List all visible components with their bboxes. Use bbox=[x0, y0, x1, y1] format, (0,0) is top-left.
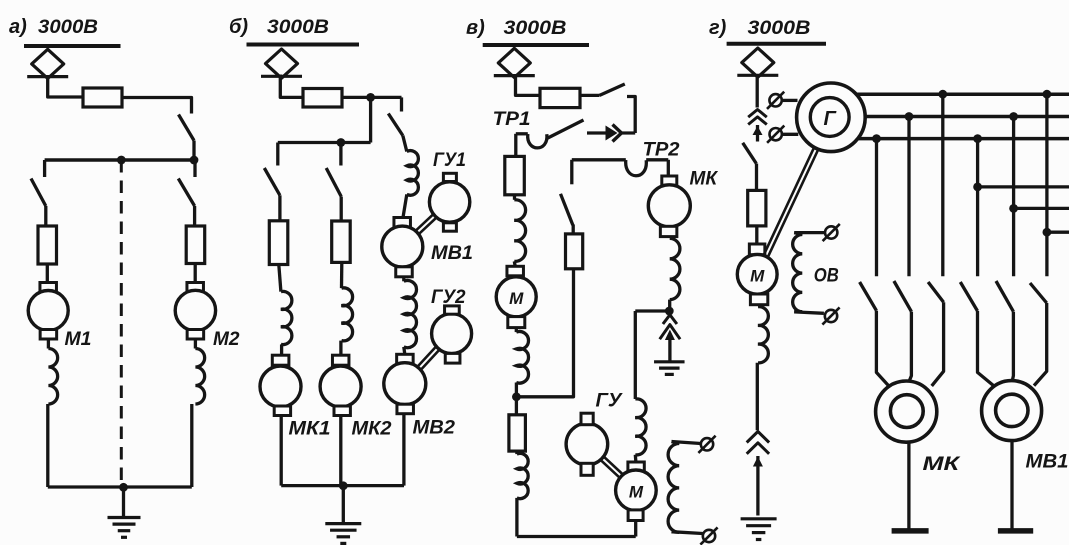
svg-text:3000В: 3000В bbox=[748, 17, 811, 39]
svg-text:3000В: 3000В bbox=[504, 17, 567, 39]
svg-text:ОВ: ОВ bbox=[814, 265, 839, 287]
svg-text:М: М bbox=[629, 483, 644, 502]
svg-text:М1: М1 bbox=[65, 328, 92, 350]
svg-text:ГУ2: ГУ2 bbox=[431, 286, 466, 308]
svg-text:М: М bbox=[509, 289, 524, 308]
svg-text:ГУ1: ГУ1 bbox=[433, 149, 466, 171]
svg-text:3000В: 3000В bbox=[267, 16, 329, 38]
svg-text:3000В: 3000В bbox=[38, 16, 98, 38]
svg-text:МК: МК bbox=[923, 453, 962, 475]
svg-text:МК: МК bbox=[690, 168, 719, 190]
svg-text:а): а) bbox=[9, 16, 27, 38]
svg-text:МВ1: МВ1 bbox=[1026, 451, 1069, 473]
svg-text:б): б) bbox=[229, 16, 248, 38]
svg-text:М: М bbox=[750, 267, 765, 286]
svg-text:ТР1: ТР1 bbox=[493, 108, 531, 130]
svg-text:в): в) bbox=[466, 17, 485, 39]
svg-text:МВ2: МВ2 bbox=[413, 417, 456, 439]
svg-text:ГУ: ГУ bbox=[596, 390, 624, 412]
svg-text:МВ1: МВ1 bbox=[431, 242, 473, 264]
svg-text:М2: М2 bbox=[213, 328, 240, 350]
svg-text:ТР2: ТР2 bbox=[643, 139, 680, 161]
svg-text:г): г) bbox=[709, 17, 727, 39]
svg-text:МК2: МК2 bbox=[352, 418, 392, 440]
svg-text:Г: Г bbox=[824, 108, 838, 130]
svg-text:МК1: МК1 bbox=[289, 418, 331, 440]
